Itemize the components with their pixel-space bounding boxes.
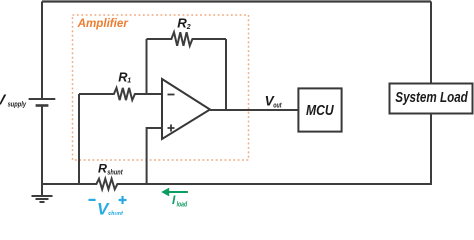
op-amp U1	[162, 79, 210, 139]
label V_shunt plus sign	[119, 196, 127, 204]
svg-text:R: R	[177, 15, 187, 30]
wire left rail lower	[41, 106, 43, 185]
svg-text:shunt: shunt	[108, 209, 123, 215]
wire right rail lower	[430, 114, 432, 186]
svg-text:supply: supply	[8, 99, 27, 108]
wire R1 left vertical (sense - tap)	[78, 94, 80, 184]
wire right rail upper	[430, 2, 432, 84]
wire R1 input with resistor R1	[79, 88, 162, 100]
MCU box	[298, 88, 341, 131]
system load box	[390, 84, 473, 114]
wire feedback left vertical	[146, 39, 148, 94]
wire op-amp output V_out	[210, 109, 298, 111]
svg-text:System Load: System Load	[395, 90, 468, 106]
wire left rail upper	[41, 2, 43, 100]
svg-text:MCU: MCU	[306, 103, 334, 119]
arrow I_load	[168, 191, 188, 193]
battery V_supply	[29, 98, 56, 100]
svg-text:out: out	[273, 101, 282, 110]
ground	[41, 184, 43, 196]
svg-text:2: 2	[186, 24, 191, 31]
svg-text:1: 1	[127, 77, 131, 84]
svg-text:Amplifier: Amplifier	[77, 17, 130, 30]
svg-text:shunt: shunt	[107, 169, 123, 176]
wire feedback top with resistor R2	[147, 32, 227, 46]
svg-text:R: R	[98, 162, 107, 176]
amplifier dashed box	[73, 15, 249, 160]
wire top rail	[42, 0, 431, 2]
wire op-amp plus input	[147, 128, 162, 184]
wire feedback right vertical	[225, 39, 227, 110]
label V_shunt minus sign	[89, 199, 96, 201]
svg-text:load: load	[177, 200, 188, 209]
wire bottom rail with resistor R_shunt	[42, 179, 431, 190]
